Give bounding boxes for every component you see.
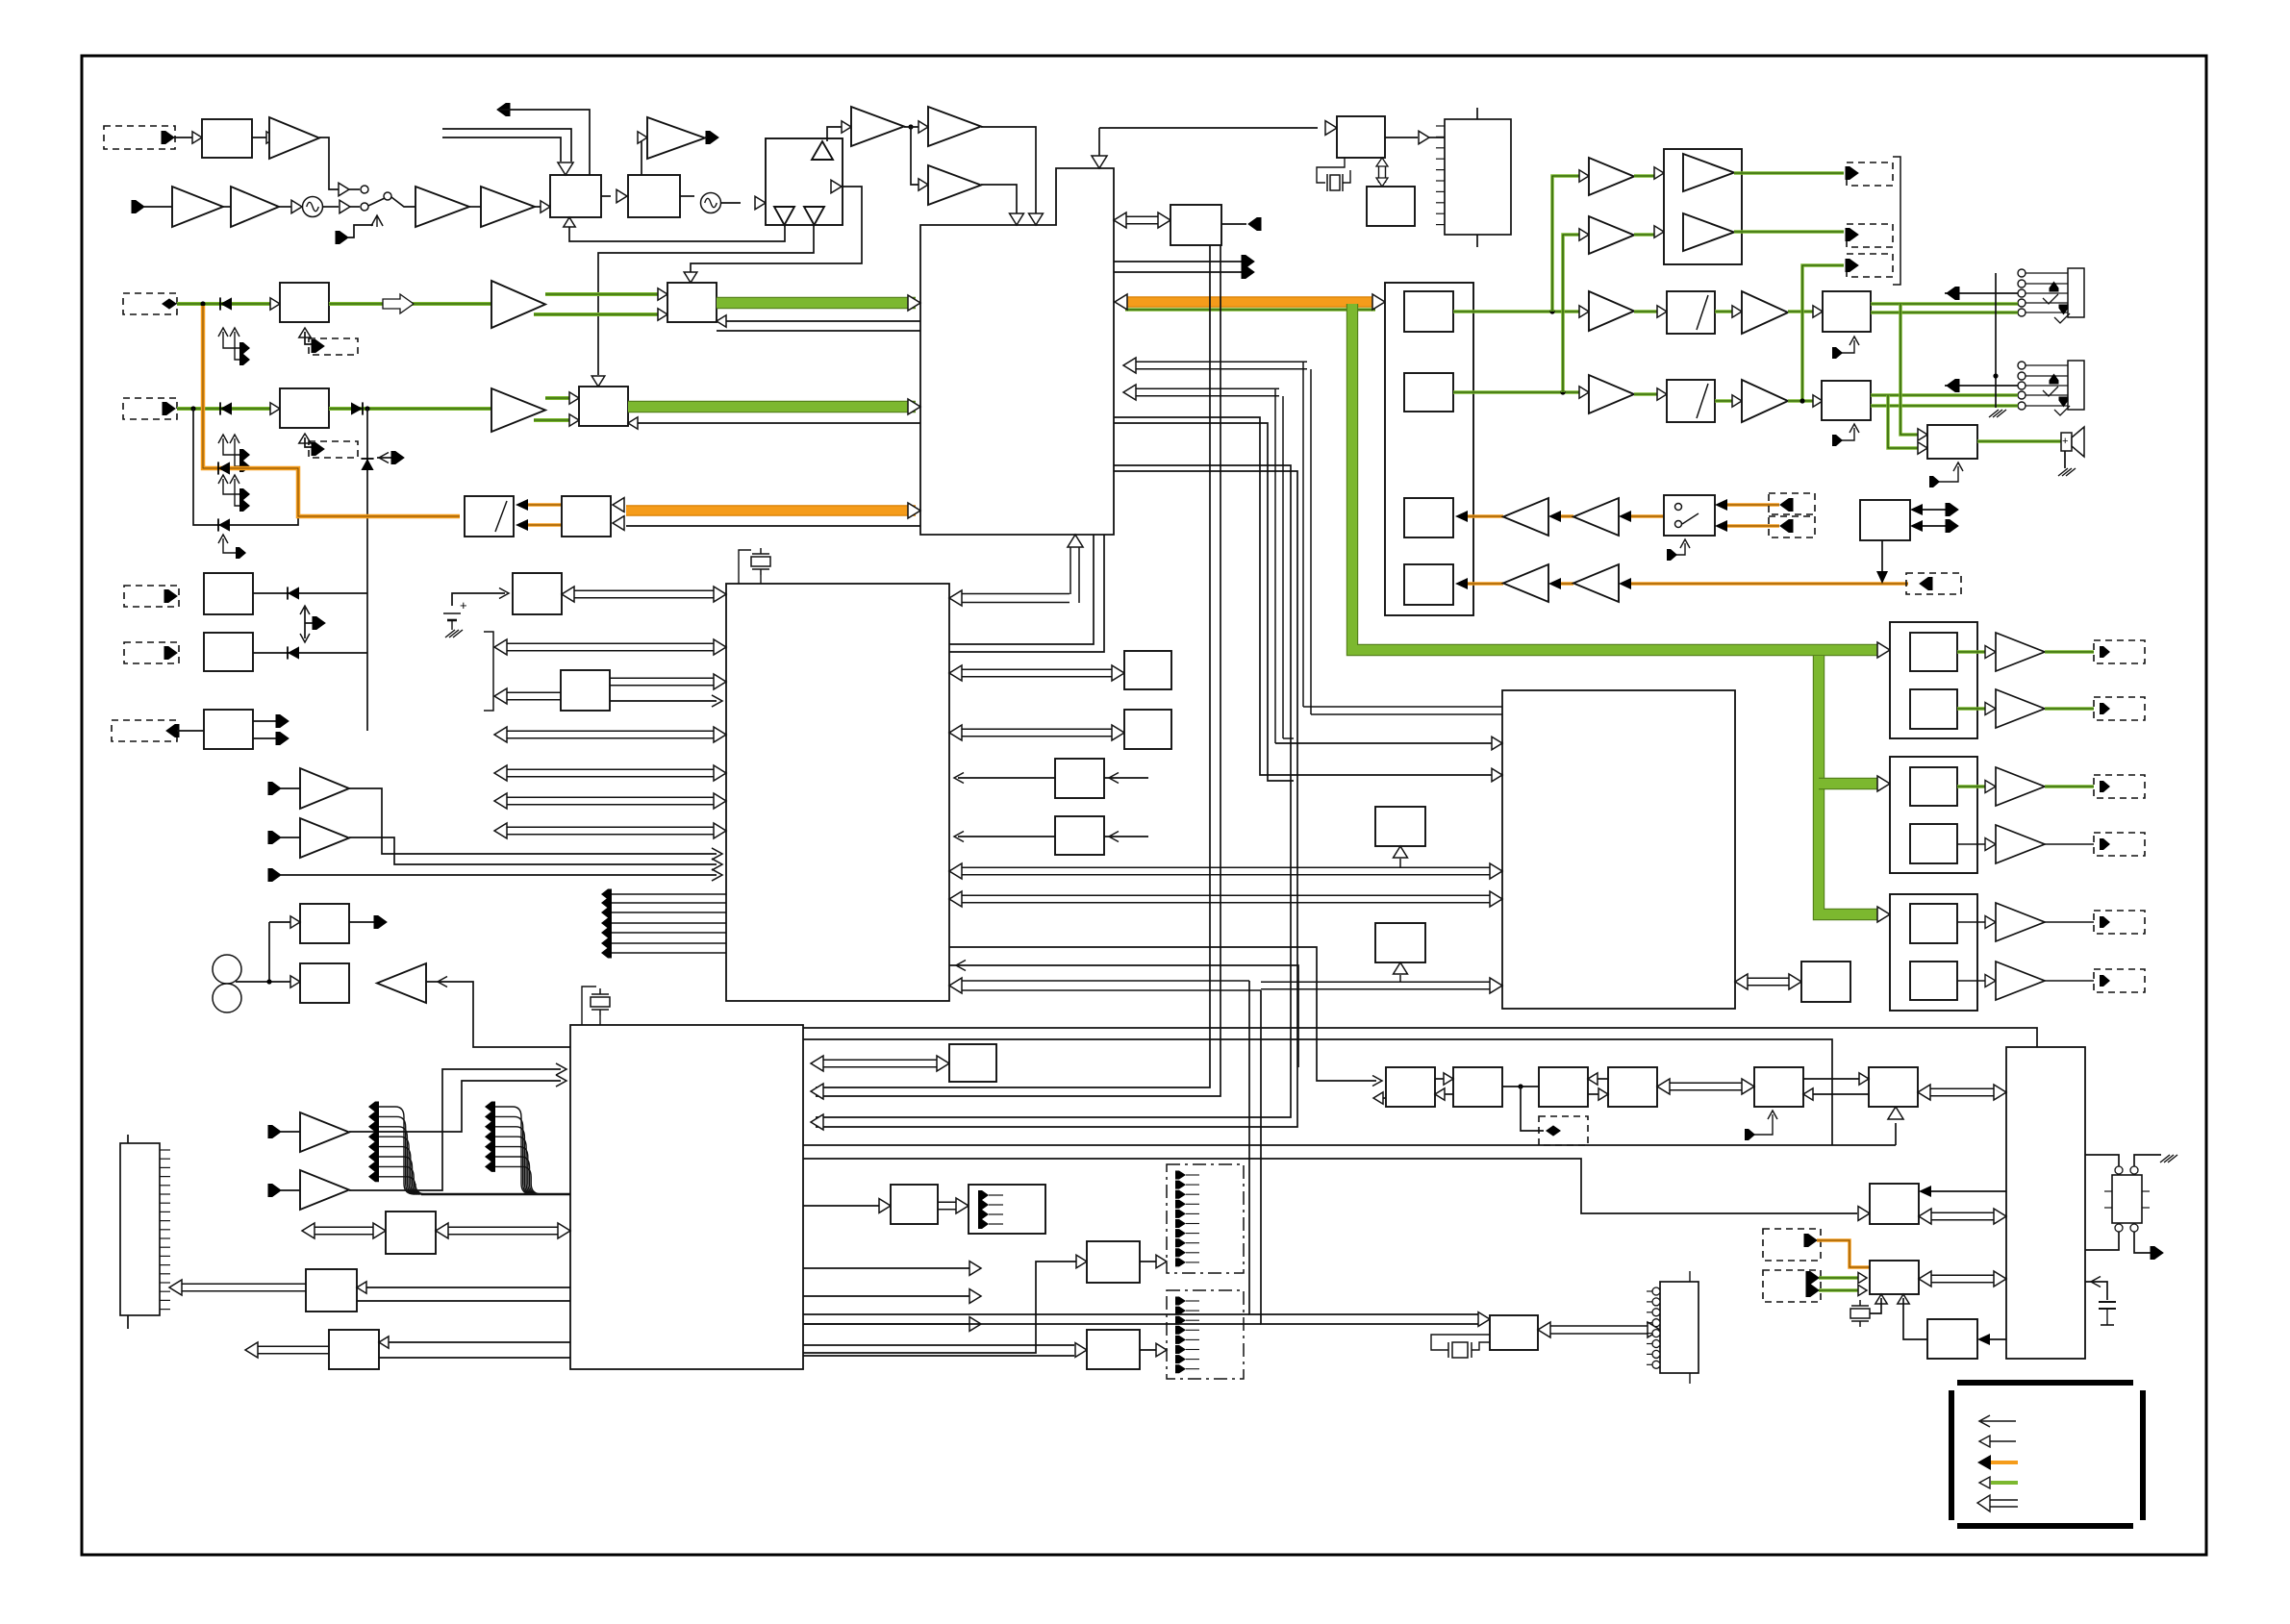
block B19 reg (1055, 816, 1104, 855)
bus CN9 to B12 (182, 1283, 307, 1285)
wire open arrow1 (803, 1267, 969, 1269)
block SP3 b (1910, 962, 1957, 1000)
arrow return into B6b (628, 417, 638, 429)
digital out row5 (1957, 921, 1988, 923)
triangle B4 down2 (804, 207, 824, 225)
wire OSC1 out (323, 206, 339, 208)
wire to T18 (281, 837, 300, 838)
amp T26 (1589, 158, 1634, 195)
block CC flash (1539, 1067, 1588, 1107)
wire T13 out (981, 127, 1036, 213)
bus play orange (1125, 296, 1375, 307)
connector CN18 led block B (1167, 1290, 1244, 1379)
block V2 volume (1667, 380, 1715, 422)
wire V1 out (1715, 310, 1734, 313)
connector CN3 ctl A (309, 338, 358, 355)
ground relay (2160, 1155, 2177, 1162)
arrow cap into U6 (2091, 1277, 2101, 1287)
block SP2 shell (1890, 757, 1977, 873)
wire CC dash (1521, 1087, 1544, 1131)
arrow fb2 down into B6b (591, 376, 605, 387)
block B27 remote if (1870, 1261, 1919, 1294)
pin CN21a (1806, 1272, 1819, 1285)
wire CN1 to B1 (174, 137, 194, 138)
pin CN8 left (166, 725, 179, 737)
wire buf to CN22 (1429, 137, 1445, 138)
amp T27 (1589, 216, 1634, 254)
pin T21 in (268, 1185, 281, 1197)
pin UD (313, 617, 325, 630)
block SW1 input switch (1664, 495, 1715, 536)
block TB ch1 (1404, 291, 1453, 332)
block B34 usb phy (949, 1044, 996, 1082)
control pin SPA (1929, 466, 1958, 482)
block SP1 a (1910, 633, 1957, 671)
pin CN13 (1780, 499, 1793, 512)
block B33 mic bias (1860, 500, 1910, 540)
wire HP2 out a (1871, 393, 2018, 397)
wire orange r3 c (1630, 514, 1664, 518)
wire orange r3 a (1468, 514, 1503, 518)
arrow into T11 (638, 132, 647, 143)
wire B7 out (253, 592, 367, 594)
amp LB1 (1683, 154, 1734, 191)
block B6b ADC B (579, 387, 628, 426)
wire relay in1 (2085, 1155, 2119, 1166)
arrowhead U6 B28b (1977, 1334, 1990, 1345)
block CB dram (1453, 1067, 1502, 1107)
wire U2 out r6 (1114, 423, 1294, 781)
arrow ctl a (1858, 1272, 1867, 1283)
junction green r1 (1549, 309, 1554, 313)
IC U5 effects processor (1502, 690, 1735, 1009)
wire CN9 tail bottom (127, 1315, 129, 1329)
wire to BA2 (803, 1262, 1079, 1353)
junction W1 (266, 979, 271, 984)
pin relay (2151, 1247, 2163, 1260)
amp T4 (231, 187, 279, 227)
arrow play into TB (1372, 294, 1385, 310)
block SP2 b (1910, 824, 1957, 863)
block B24 display port (969, 1185, 1045, 1234)
wire B30 pin (1221, 223, 1246, 225)
arrowhead sw1 (1715, 499, 1727, 511)
arrow into CC (1588, 1073, 1598, 1085)
arrow ctrl into CF (1888, 1107, 1903, 1119)
arrow into HP2 (1813, 395, 1823, 407)
arrow into B26 (1858, 1207, 1870, 1221)
bus U2 to B30 (1126, 215, 1158, 217)
wire HP1 out a (1871, 302, 2018, 306)
block TB ch3 (1404, 498, 1453, 537)
switch SW1 c1 (1675, 504, 1682, 511)
junction T12 out (908, 124, 913, 129)
wire relay out1 (2085, 1232, 2119, 1250)
arrow into DDB (1156, 1343, 1167, 1357)
wire B5b ctl (305, 437, 313, 447)
amp T7 (415, 187, 469, 227)
arrow up into B5b (299, 434, 311, 443)
block B23 display drv (891, 1185, 938, 1224)
bus B28 B29 (1378, 165, 1380, 183)
arrow into CE (1803, 1088, 1813, 1100)
wire U2 out r1 (1114, 261, 1243, 262)
arrow clock into U4 (811, 1084, 823, 1099)
arrow B19 to U3 (954, 832, 964, 842)
bus orange record to U2 (626, 505, 916, 515)
arrow into B5b (270, 403, 280, 414)
pin CN3 (312, 340, 324, 353)
switch SW1 c2 (1675, 521, 1682, 528)
wire T3-T4 (223, 206, 231, 208)
wire long ctrl E (803, 1159, 1857, 1213)
block TB ch2 (1404, 373, 1453, 412)
wire spk out (1977, 439, 2061, 443)
block M1 record mux (465, 496, 514, 537)
svg-text:+: + (2062, 436, 2068, 447)
arrow B14 extra (712, 695, 722, 707)
arrow into CA (1435, 1088, 1445, 1100)
wire CHB return (636, 422, 920, 424)
block SP1 shell (1890, 622, 1977, 738)
wire T22 out (1634, 310, 1659, 313)
bus U3 b2 left (507, 691, 561, 693)
arrow into T24 (1579, 387, 1589, 398)
arrow low1 into CA (1372, 1076, 1382, 1087)
pins CN18 (1175, 1297, 1186, 1306)
arrow fb3 down into B6a (684, 272, 697, 283)
bus U3 b5 (507, 796, 714, 798)
arrow into B12 (357, 1282, 366, 1293)
arrowhead r3c (1619, 511, 1631, 522)
block B3 filter (628, 175, 680, 217)
wire relay in2 (2134, 1155, 2161, 1166)
wire B3 top to T11 (642, 137, 647, 175)
control pin lines into U3 (601, 889, 612, 900)
buffer B4 inner (831, 180, 842, 193)
arrow T13 into U2 (1029, 213, 1044, 225)
wire green riser1 (1552, 176, 1580, 312)
amp T12 (851, 107, 904, 146)
bus CD CE (1670, 1082, 1742, 1084)
IC U4 system controller (570, 1025, 803, 1369)
wire orange r4 b (1560, 582, 1573, 586)
arrow into B13 (379, 1337, 389, 1348)
block B30 clock sel (1170, 205, 1221, 245)
arrow into B6a hi (658, 288, 667, 300)
pin B33a (1946, 504, 1958, 516)
switch blade S1 (368, 198, 385, 206)
amp T15 CHA (491, 281, 545, 328)
wire UD pin (305, 622, 314, 624)
wire orange sw in1 (1726, 503, 1779, 507)
wire T18 out (349, 837, 717, 864)
junction CHB (190, 406, 195, 411)
arrow into CB (1444, 1073, 1453, 1085)
bus U3 b6 (507, 826, 714, 828)
wire J2 sense (1945, 385, 2018, 387)
bus bracket (484, 632, 493, 711)
arrow into B5a (270, 298, 280, 310)
pin U2 r2 (1242, 266, 1254, 279)
arrow into U2 notch (1092, 156, 1107, 168)
arrow T20 into U4 (556, 1075, 566, 1087)
pin B33b (1946, 520, 1958, 533)
connector CN9 ribbon (120, 1143, 160, 1315)
wire B5a out (329, 302, 491, 306)
wire B12 r1 (365, 1287, 570, 1288)
buffer T32 (1419, 131, 1429, 144)
buffer T2 (339, 183, 349, 196)
wire ch1 to T22 (1453, 310, 1580, 313)
wire play green (1125, 308, 1375, 312)
transformer W1 top (213, 955, 241, 984)
wire fb1 (569, 225, 785, 241)
bus U3 serial split (949, 978, 962, 993)
block B21 latch (1375, 923, 1425, 962)
wire orange sw in2 (1726, 524, 1779, 528)
bus green branch mid (1819, 778, 1877, 789)
connector CN7 aux2 (124, 642, 179, 663)
arrow into B19 (1109, 832, 1119, 842)
wire V2 out (1715, 399, 1734, 403)
wire to BB2 a (803, 1344, 1074, 1346)
headphone jack J1 (2018, 269, 2026, 277)
wire W1 to B11 (236, 981, 292, 983)
wire to T20 (281, 1131, 300, 1133)
bus B25 CN19 (1550, 1325, 1648, 1327)
crystal X1 for U3 (739, 550, 751, 584)
wire T26 out (1634, 174, 1656, 178)
wire B9 pin1 (253, 720, 277, 722)
bus B13 left (258, 1345, 329, 1347)
wire bus down b (442, 137, 561, 162)
connector CN5 ctl B (309, 441, 358, 458)
junction CHB2 (365, 406, 369, 411)
bus U2 r3 (1136, 361, 1307, 362)
wire bundle LED drive 2 (485, 1102, 495, 1112)
wire B33 down (1881, 540, 1883, 574)
amp T1 (269, 117, 319, 159)
arrow into T27 (1579, 229, 1589, 240)
bus U3 b4 (507, 768, 714, 770)
wire B19 out (958, 836, 1055, 837)
pin D4 ctl (391, 452, 404, 464)
amp T8 (481, 187, 535, 227)
bus green trunk (1352, 304, 1877, 650)
wire serial stub b (803, 1323, 1261, 1325)
connector CN11 line out R (1847, 224, 1893, 247)
wire serial v1 (1249, 981, 1482, 1314)
IC U2 main codec (920, 168, 1114, 535)
ground speaker (2058, 468, 2076, 476)
bus U3 B16 (962, 668, 1112, 670)
arrow into HP1 (1813, 306, 1823, 317)
control pin SW1 (1667, 543, 1685, 555)
digital out row2 (1957, 707, 1988, 711)
wire T23 out (1788, 310, 1815, 313)
connector CN4 line in B (123, 398, 177, 419)
arrow into B15 (499, 588, 509, 599)
bus B23 B24 (938, 1201, 956, 1203)
block B10 out buf (300, 904, 349, 943)
amp T29 left (1573, 498, 1619, 536)
block V1 volume (1667, 291, 1715, 334)
wire ctrl to B28 (1099, 127, 1318, 129)
wire green riser2 (1563, 235, 1580, 392)
connector CN6 aux1 (124, 586, 179, 607)
slash in V1 (1697, 295, 1708, 330)
buffer T6 (340, 200, 350, 213)
IC U6 power controller (2006, 1047, 2085, 1359)
wire CE CF a (1803, 1078, 1861, 1080)
connector CN16 jumper (1539, 1116, 1588, 1145)
arrowhead B33a (1910, 504, 1923, 515)
switch contact S1b (361, 203, 368, 211)
wire B14 extra (610, 700, 717, 702)
wire notch link (1098, 128, 1100, 156)
pins in B24 (978, 1190, 989, 1200)
wire B3 out (680, 195, 694, 197)
wire T17 out (349, 788, 717, 854)
block B2 ALC (550, 175, 601, 217)
bus U3 b1 (507, 642, 714, 644)
arrow into LB t (1654, 167, 1664, 179)
wire CN22 tail top (1476, 108, 1478, 119)
wire B8 out (253, 652, 367, 654)
wire serial stub a (803, 1313, 1249, 1315)
arrowhead sw2 (1715, 520, 1727, 532)
wire T16 out lo (534, 418, 571, 422)
junction CHA (200, 301, 205, 306)
connector CN10 line out L (1847, 162, 1893, 186)
speaker LS1 (2061, 433, 2072, 451)
block HP1 headphone drv A (1823, 291, 1871, 332)
wire green to CN12 (1802, 265, 1844, 401)
wire CN22 tail bottom (1476, 235, 1478, 247)
pin CN21b (1806, 1285, 1819, 1297)
bus U3 b2 right (610, 677, 714, 679)
pin B9a (276, 715, 289, 728)
pin mic input (132, 201, 144, 213)
arrow trunk into SP1 (1877, 642, 1890, 658)
connector CN1 input (104, 126, 175, 149)
wire to T17 (281, 787, 300, 789)
wire bundle trunk (421, 1193, 570, 1195)
wire jack common (1995, 273, 1997, 408)
crystal X2 (591, 988, 610, 1015)
white arrow on CHA wire (383, 294, 414, 313)
legend arrow record orange (1991, 1461, 2018, 1464)
amp T11 (647, 117, 705, 159)
wire U2-U3 d2 (949, 535, 1104, 652)
amp T28 left (1503, 498, 1548, 536)
bus serial to U5 (1261, 981, 1490, 983)
wire B13 r1 (387, 1341, 570, 1343)
arrow control up (371, 215, 383, 226)
wire T2 to contact (349, 188, 360, 190)
pin T17 in (268, 783, 281, 795)
block TB ch4 (1404, 564, 1453, 605)
wire B12 r2 (357, 1300, 570, 1302)
digital out row3 (1957, 785, 1988, 788)
arrow UD down (300, 634, 310, 642)
wire T4 out (279, 206, 291, 208)
arrow into BA2 (1076, 1255, 1087, 1268)
block B29 pll (1367, 187, 1415, 226)
amp T19 left (377, 963, 426, 1003)
arrow T18 into U3 (712, 859, 722, 870)
bus B12b U4 (448, 1226, 558, 1228)
bus U5 B22 (1748, 977, 1789, 979)
connector CN17 led block A (1167, 1164, 1244, 1273)
wire CHB green in (177, 407, 272, 411)
arrow open1 (969, 1262, 981, 1276)
diode D5 (218, 518, 230, 531)
wire clock dist v1 (816, 245, 1210, 1087)
wire T25 out (1788, 399, 1815, 403)
wire to T21 (281, 1189, 300, 1191)
arrow up into B5a (299, 328, 311, 337)
wire T14 feed (911, 127, 920, 185)
arrow serial into B25 (1478, 1312, 1490, 1327)
bus CN9 B12b (315, 1226, 373, 1228)
pin CN16 diamond (1546, 1125, 1561, 1136)
control pins CHB a (223, 438, 239, 455)
bracket line outs (1893, 157, 1900, 285)
wire LB1 out (1734, 171, 1844, 175)
wire U2-U3 d1 (949, 535, 1094, 644)
arrow into T13 (919, 121, 928, 133)
pin U2 r1 (1242, 256, 1254, 268)
arrow spk1 (1918, 429, 1927, 440)
block B25 serial io (1490, 1315, 1538, 1350)
wire switch out (391, 197, 415, 207)
wire U3 r low1 (949, 947, 1376, 1081)
wire CE CF b (1811, 1093, 1869, 1095)
arrowhead r4b (1548, 578, 1561, 589)
wire spk in2 (1888, 395, 1920, 448)
amp T20 (300, 1112, 349, 1152)
bus CF U6 (1930, 1087, 1994, 1089)
arrow play into U2 (1115, 294, 1127, 310)
block B5b input mix B (280, 388, 329, 428)
arrow T17 into U3 (712, 848, 722, 860)
wire X4 a (1870, 1298, 1881, 1313)
bus U2 r4 (1136, 387, 1279, 389)
wire U3 r low2 (949, 965, 1298, 1067)
wire orange r3 b (1560, 514, 1573, 518)
wire B13 r2 (379, 1357, 570, 1359)
arrow orange bus U2 end (908, 503, 920, 518)
connector CN21 ext io (1763, 1270, 1821, 1302)
block B14 iso (561, 670, 610, 711)
amp T31 left (1573, 564, 1619, 602)
diode D3 (351, 402, 363, 414)
wire B10 feed vert (268, 922, 270, 982)
arrow open2 (969, 1289, 981, 1304)
block B8 aux2 buf (204, 633, 253, 671)
wire CA stub (1379, 1097, 1386, 1099)
arrowhead U6 B26 (1919, 1186, 1931, 1197)
wire line3 (281, 874, 717, 876)
junction jack common (1993, 373, 1998, 378)
arrow into B6a lo (658, 309, 667, 320)
control pin HP1 (1832, 340, 1854, 353)
wire HP1 out b (1871, 311, 2018, 314)
arrow trunk into SP3 (1877, 907, 1890, 922)
wire B5a ctl (305, 332, 313, 344)
